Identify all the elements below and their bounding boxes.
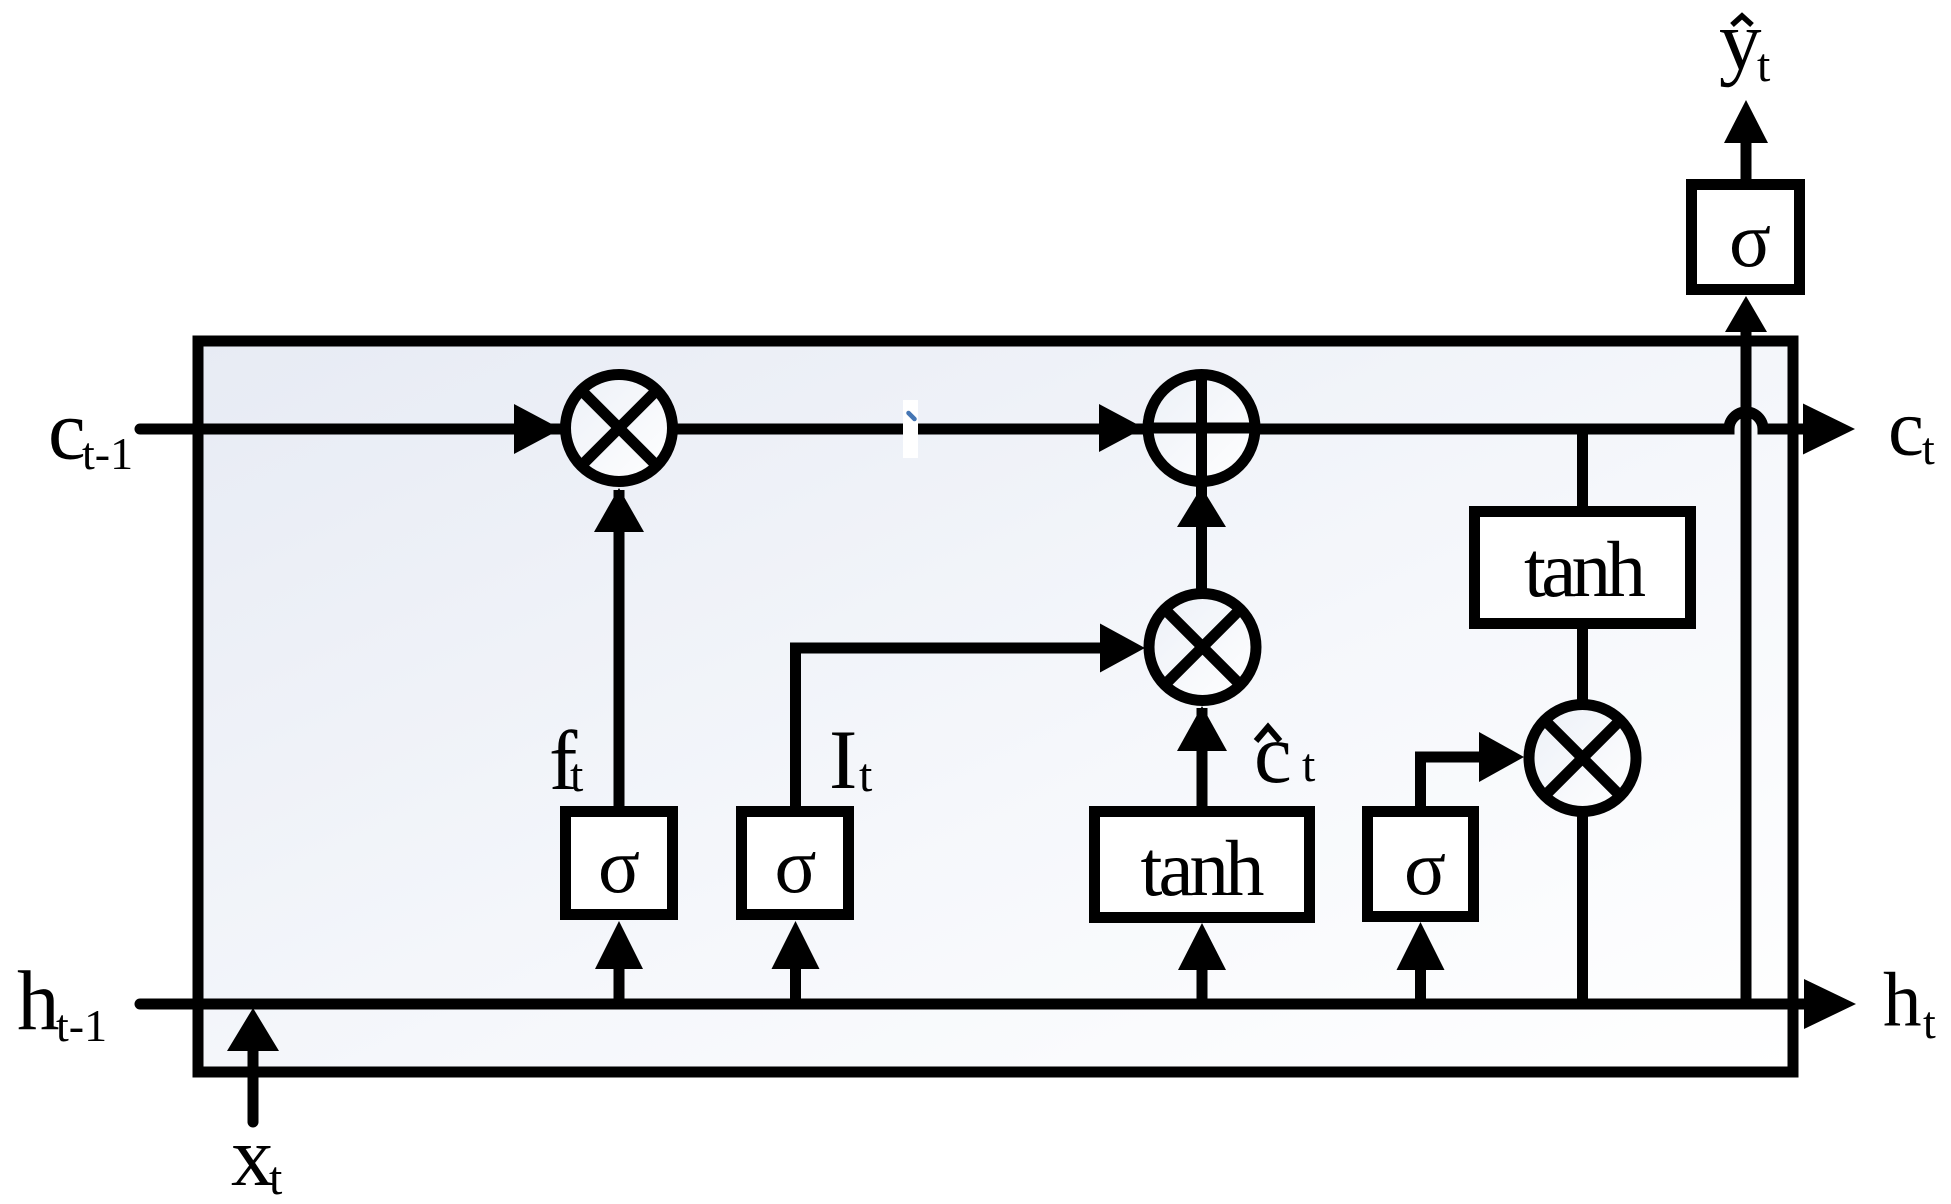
- label h(t-1): [17, 954, 107, 1051]
- top sigma box: [1692, 185, 1800, 290]
- svg-text:h: h: [17, 954, 60, 1048]
- wire: stub from h line into bottom tanh: [1197, 968, 1208, 1004]
- svg-text:tanh: tanh: [1141, 826, 1265, 913]
- arrowhead into X1 from below: [594, 488, 644, 532]
- blue artifact mark: [909, 413, 915, 419]
- svg-text:t: t: [859, 749, 873, 802]
- wire: branch from c line down into right tanh box: [1577, 429, 1588, 515]
- multiplier X2 circle: [1149, 594, 1256, 701]
- wire: bottom tanh box up to multiplier X2: [1197, 708, 1208, 812]
- multiplier X3 cross arms: [1544, 720, 1621, 797]
- label c(t): [1888, 383, 1935, 475]
- arrowhead into X1 from left: [514, 404, 561, 454]
- label x(t): [231, 1110, 283, 1204]
- candidate tanh box (bottom): [1095, 812, 1310, 918]
- wire: input gate sigma2 up and right to multiplier X2: [796, 648, 1101, 812]
- arrowhead into X3 from left: [1479, 732, 1524, 782]
- arrowhead into top sigma box: [1725, 296, 1767, 332]
- arrowhead into bottom tanh: [1178, 923, 1226, 970]
- wire: c(t-1) to c(t) cell-state line with hop over vertical wire: [140, 412, 1803, 429]
- adder circle: [1148, 375, 1255, 482]
- svg-text:c: c: [1254, 707, 1292, 801]
- svg-text:c: c: [1888, 383, 1924, 473]
- svg-text:t: t: [1923, 997, 1936, 1048]
- svg-text:tanh: tanh: [1524, 527, 1646, 614]
- arrowhead into sigma1: [595, 921, 643, 969]
- label h(t): [1883, 957, 1936, 1049]
- wire: vertical from h-line up to top sigma box (crosses c line under hop): [1741, 332, 1752, 1004]
- LSTM cell body rectangle: [198, 341, 1793, 1072]
- arrowhead of y(t) output: [1724, 100, 1768, 143]
- arrowhead into adder from below: [1177, 487, 1226, 527]
- svg-text:t-1: t-1: [56, 1000, 107, 1051]
- svg-text:I: I: [829, 713, 857, 807]
- svg-text:h: h: [1883, 957, 1922, 1043]
- svg-text:σ: σ: [598, 822, 640, 909]
- svg-text:t: t: [1757, 39, 1771, 92]
- arrowhead into sigma3: [1397, 922, 1445, 970]
- arrowhead into sigma2: [772, 921, 820, 969]
- wire: x(t) input from below: [248, 1050, 259, 1122]
- arrowhead into X2 from left: [1100, 624, 1145, 673]
- multiplier X3 circle: [1529, 705, 1636, 812]
- svg-text:σ: σ: [1404, 824, 1446, 911]
- wire: stub from h line into sigma1: [614, 968, 625, 1004]
- wire: forget gate sigma1 up to multiplier X1: [614, 490, 625, 812]
- wire: stub from h line into sigma3: [1415, 968, 1426, 1004]
- tanh box (right): [1475, 512, 1691, 624]
- wire: adder down to multiplier X2 (plus-bar of adder continues): [1196, 371, 1207, 592]
- svg-text:t-1: t-1: [82, 428, 133, 479]
- wire: multiplier X3 down to h line: [1577, 810, 1588, 1004]
- arrowhead of h(t) output: [1804, 979, 1856, 1029]
- arrowhead of c(t) output: [1803, 404, 1855, 455]
- svg-text:t: t: [1922, 423, 1935, 474]
- svg-text:t: t: [570, 749, 584, 802]
- arrowhead into adder from left: [1099, 404, 1144, 452]
- multiplier X1 circle: [566, 375, 673, 482]
- wire: stub from h line into sigma2: [790, 968, 801, 1004]
- output gate box sigma3: [1368, 812, 1474, 917]
- wire: top sigma box output up to y(t): [1741, 140, 1752, 182]
- label f(t): [549, 714, 584, 808]
- arrowhead of x(t) input: [227, 1008, 279, 1051]
- svg-text:σ: σ: [774, 822, 816, 909]
- label I(t): [829, 713, 873, 807]
- label y-hat(t): [1719, 0, 1771, 92]
- white patch artifact on c line: [903, 400, 918, 458]
- svg-text:x: x: [231, 1110, 274, 1204]
- wire: output gate sigma3 up and right to multiplier X3: [1421, 757, 1482, 812]
- forget gate box sigma1: [566, 812, 673, 915]
- svg-text:y: y: [1719, 0, 1762, 88]
- svg-text:t: t: [1302, 739, 1316, 792]
- adder plus bars: [1145, 372, 1258, 484]
- svg-text:t: t: [269, 1152, 283, 1204]
- arrowhead into X2 from below: [1177, 706, 1227, 751]
- wire: h(t-1) to h(t) bottom line: [140, 999, 1804, 1010]
- svg-text:c: c: [48, 384, 86, 478]
- label c-hat(t): [1254, 707, 1316, 801]
- multiplier X2 cross arms: [1164, 609, 1241, 686]
- wire: right tanh box down to multiplier X3: [1577, 622, 1588, 706]
- input gate box sigma2: [742, 812, 849, 915]
- multiplier X1 cross arms: [581, 390, 658, 467]
- svg-text:σ: σ: [1729, 196, 1771, 283]
- label c(t-1): [48, 384, 133, 480]
